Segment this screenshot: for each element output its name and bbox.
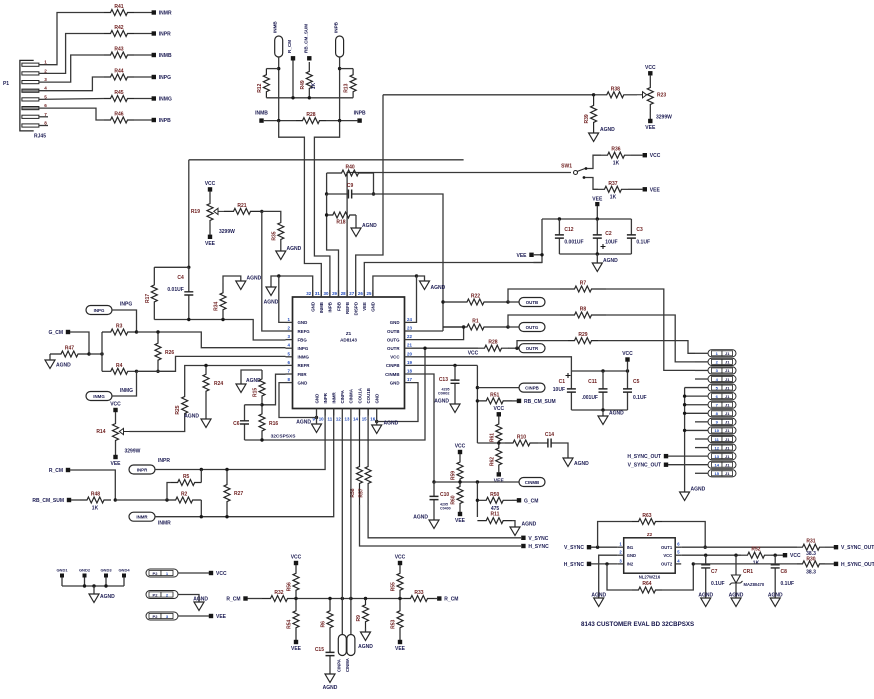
svg-text:J1: J1 <box>725 385 730 390</box>
svg-text:C9: C9 <box>347 183 354 189</box>
wire VCC to R61 <box>498 417 500 423</box>
resistor R57 <box>365 409 371 506</box>
svg-text:R23: R23 <box>657 93 666 99</box>
svg-text:J1: J1 <box>725 454 730 459</box>
svg-text:FBG: FBG <box>298 337 308 342</box>
resistor R58 <box>357 409 363 506</box>
svg-text:R63: R63 <box>642 513 651 519</box>
ground below C8 <box>770 598 780 607</box>
testpoint CINPA <box>338 635 346 656</box>
wire AGND stub top-right <box>417 276 425 281</box>
resistor R25 <box>182 390 188 420</box>
power flag VCC above R61 <box>497 412 501 416</box>
junction R2 left <box>165 498 168 501</box>
net flag V_SYNC z2 <box>587 545 591 549</box>
wire R52 to VCC flag <box>771 554 783 556</box>
svg-text:24: 24 <box>407 317 412 322</box>
wire R31 to V_SYNC_OUT <box>825 546 834 548</box>
svg-text:VCC: VCC <box>645 65 656 71</box>
svg-text:R55: R55 <box>391 582 397 591</box>
svg-text:AGND: AGND <box>246 378 261 384</box>
wire bottom rail to AGND <box>596 254 598 263</box>
junction R56 R54 <box>294 597 297 600</box>
power flag VEE P2 <box>209 614 213 618</box>
svg-text:VCC: VCC <box>390 355 400 360</box>
svg-text:15: 15 <box>362 417 367 422</box>
svg-text:0.001UF: 0.001UF <box>564 240 583 246</box>
resistor R26 <box>155 332 161 371</box>
svg-text:OUTR: OUTR <box>387 346 400 351</box>
IC pin 11 INMR <box>333 409 335 416</box>
svg-text:CINMB: CINMB <box>385 372 399 377</box>
svg-text:AGND: AGND <box>184 414 199 420</box>
junction R63 tap <box>596 546 599 549</box>
svg-text:38.3: 38.3 <box>806 569 816 575</box>
svg-text:30: 30 <box>324 291 329 296</box>
svg-text:R51: R51 <box>490 392 499 398</box>
ground below R11 <box>510 527 520 536</box>
svg-text:R28: R28 <box>306 112 315 118</box>
svg-text:AGND: AGND <box>609 411 624 417</box>
power flag VEE below R60 <box>458 512 462 516</box>
svg-text:R40: R40 <box>345 165 354 171</box>
svg-text:VCC: VCC <box>468 350 479 356</box>
IC pin 8 GND <box>286 382 293 384</box>
net flag H_SYNC_OUT z2 <box>834 562 838 566</box>
IC pin 19 CINPB <box>405 364 412 366</box>
svg-text:REFB: REFB <box>345 302 350 314</box>
resistor R22 <box>443 299 508 305</box>
wire FBR jog <box>262 374 286 405</box>
svg-text:OUT2: OUT2 <box>661 562 673 567</box>
svg-text:Z2: Z2 <box>647 532 653 537</box>
junction bus pin6 <box>683 394 686 397</box>
capacitor C8 <box>774 555 776 577</box>
wire INPG oval to column <box>112 310 137 332</box>
wire R18 to AGND <box>355 215 357 228</box>
svg-text:R21: R21 <box>237 203 246 209</box>
junction R2 INMR <box>200 515 203 518</box>
svg-text:R7: R7 <box>580 281 587 287</box>
wire COU1B to V_SYNC row <box>368 505 521 538</box>
net flag INPG <box>152 75 156 79</box>
wire H_SYNC_OUT to J1 pin13 <box>668 455 708 457</box>
wire P1 pin3 to R43 <box>39 55 104 82</box>
svg-text:C10: C10 <box>440 492 449 498</box>
wire OUTR to R29 row <box>517 341 568 349</box>
junction OUTR feedback <box>423 347 426 350</box>
wire INMG oval to column <box>112 371 137 396</box>
svg-text:R25: R25 <box>175 405 181 414</box>
testpoint CINMA <box>347 635 355 656</box>
svg-text:INPR: INPR <box>158 458 170 464</box>
connector J1 pin 1 <box>708 350 736 357</box>
svg-text:R41: R41 <box>114 4 123 10</box>
svg-text:R2: R2 <box>181 492 188 498</box>
wire R14 bottom to VEE <box>115 441 117 455</box>
resistor R40 <box>327 170 374 176</box>
wire R64 loop <box>607 564 632 590</box>
net label INPR <box>129 465 155 474</box>
svg-text:23: 23 <box>407 326 412 331</box>
capacitor C15 <box>329 640 331 668</box>
connector J1 pin 11 <box>708 435 736 442</box>
svg-text:R36: R36 <box>611 147 620 153</box>
svg-text:VEE: VEE <box>645 125 656 131</box>
svg-text:R34: R34 <box>214 301 220 310</box>
svg-text:V_SYNC: V_SYNC <box>528 536 548 542</box>
wire P2 pin2 to AGND <box>178 595 199 603</box>
IC pin 24 GND <box>405 321 412 323</box>
svg-text:R_CM: R_CM <box>226 597 240 603</box>
svg-text:VEE: VEE <box>362 302 367 311</box>
svg-text:AGND: AGND <box>247 276 262 282</box>
junction INMB column <box>277 119 280 122</box>
wire J1 ground bus <box>685 387 708 389</box>
wire junction to R35 <box>262 211 281 222</box>
svg-text:P2: P2 <box>153 592 159 597</box>
wire R3 row to FBG jog <box>137 332 286 348</box>
wire R1 to OUTG oval <box>508 326 519 328</box>
connector J1 pin 8 <box>708 410 736 417</box>
junction R3 R4 split <box>100 352 103 355</box>
net flag INMR <box>152 10 156 14</box>
svg-text:SW1: SW1 <box>561 164 572 170</box>
power flag VEE left of cap bank <box>529 253 533 257</box>
junction C10 rail <box>432 480 435 483</box>
wire INMB testpoint down <box>278 57 280 121</box>
svg-text:GND: GND <box>390 320 400 325</box>
svg-text:IN2: IN2 <box>627 562 634 567</box>
ground P2 <box>194 602 204 611</box>
wire pin16 to AGND <box>376 416 378 422</box>
svg-text:R54: R54 <box>287 619 293 628</box>
resistor R44 <box>104 74 134 80</box>
wire VCC line from pin20 <box>412 357 572 371</box>
svg-text:17: 17 <box>407 377 412 382</box>
svg-text:C1: C1 <box>559 379 566 385</box>
net flag R_CM bottom-left <box>243 596 247 600</box>
wire R15 arch to AGND <box>241 370 262 384</box>
connector J1 pin 9 <box>708 418 736 425</box>
svg-text:R17: R17 <box>145 294 151 303</box>
svg-text:19: 19 <box>407 360 412 365</box>
svg-text:J1: J1 <box>725 420 730 425</box>
svg-text:R50: R50 <box>490 492 499 498</box>
potentiometer R23 <box>647 80 653 112</box>
IC pin 32 GND <box>312 290 314 297</box>
junction R64 tap <box>605 562 608 565</box>
wire OUTB pin stub <box>412 330 444 332</box>
net label INPG <box>86 306 112 315</box>
potentiometer R14 <box>113 423 119 441</box>
capacitor C6 <box>244 405 246 440</box>
wire VCC row Z2 <box>681 554 741 556</box>
svg-text:P2: P2 <box>153 614 159 619</box>
junction CR1 top <box>734 554 737 557</box>
net flag INMG <box>152 96 156 100</box>
wire R21 node to IC pin2 REFG <box>262 211 286 331</box>
svg-text:AGND: AGND <box>358 644 373 650</box>
wire INMB to R28 <box>264 120 296 122</box>
wire R50 to G_CM <box>512 499 517 501</box>
wire R19 bottom to VEE <box>209 221 211 235</box>
ground GND posts <box>89 594 99 603</box>
svg-text:R9: R9 <box>356 615 362 622</box>
IC pin 13 CINMA <box>350 409 352 416</box>
resistor R15 <box>259 370 265 405</box>
resistor R1 <box>443 324 508 330</box>
svg-text:AGND: AGND <box>296 420 311 426</box>
net flag H_SYNC_OUT <box>664 454 668 458</box>
resistor R33 <box>404 596 434 602</box>
IC pin 26 VEE <box>363 290 365 297</box>
wire cap bank bottom rail <box>559 253 631 255</box>
svg-text:R28: R28 <box>488 340 497 346</box>
svg-text:V_SYNC_OUT: V_SYNC_OUT <box>841 545 874 551</box>
resistor R27 <box>224 470 230 517</box>
wire pin24 GND jog <box>412 276 417 322</box>
net flag H_SYNC mid <box>521 544 525 548</box>
svg-text:VCC: VCC <box>455 444 466 450</box>
wire R5 to INPR row <box>200 470 202 483</box>
power flag VCC right of R36 <box>643 153 647 157</box>
svg-text:C11: C11 <box>588 379 597 385</box>
svg-text:0.1UF: 0.1UF <box>636 240 650 246</box>
wire R43 to INMB flag <box>134 54 152 56</box>
wire C10 to AGND <box>433 514 435 520</box>
resistor R3 <box>102 329 137 335</box>
resistor R8 <box>560 312 606 318</box>
wire R23 bottom to VEE <box>649 112 651 119</box>
junction R29 tap <box>515 347 518 350</box>
svg-text:AGND: AGND <box>522 522 537 528</box>
power flag VCC z2 <box>783 553 787 557</box>
svg-text:INPR: INPR <box>137 468 148 473</box>
IC pin 18 CINMB <box>405 373 412 375</box>
IC pin 5 INMG <box>286 356 293 358</box>
svg-text:REFG: REFG <box>298 329 311 334</box>
svg-text:R48: R48 <box>91 492 100 498</box>
net label INMG <box>86 392 112 401</box>
power flag VCC above R19 <box>208 187 212 191</box>
svg-text:OUTB: OUTB <box>387 329 399 334</box>
svg-text:INPR: INPR <box>159 32 171 38</box>
svg-text:NL27WZ16: NL27WZ16 <box>639 574 661 579</box>
IC pin 31 INMB <box>320 290 322 297</box>
svg-text:R24: R24 <box>214 381 223 387</box>
resistor R11 <box>477 518 512 524</box>
wire P1 pin1 to R41 <box>39 13 104 65</box>
wire R28 to INPB <box>326 120 357 122</box>
power flag VEE below R54 <box>294 640 298 644</box>
junction C12 top <box>558 217 561 220</box>
junction GND rail pin24 <box>415 274 418 277</box>
svg-text:GND: GND <box>314 394 319 404</box>
switch SW1 <box>574 171 578 175</box>
svg-text:VCC: VCC <box>291 555 302 561</box>
svg-text:C13: C13 <box>439 377 448 383</box>
diode CR1 <box>735 555 737 575</box>
connector P2 pin 1 <box>146 569 178 577</box>
wire R40 loop right <box>373 173 375 194</box>
net label OUTR <box>519 344 545 353</box>
wire P2 pin1 to VCC <box>178 572 209 574</box>
junction R22 out <box>506 300 509 303</box>
svg-text:INPB: INPB <box>354 111 366 117</box>
IC pin 22 OUTG <box>405 339 412 341</box>
resistor R60 <box>457 482 463 508</box>
junction CINPB oval row <box>476 386 479 389</box>
svg-text:OUTG: OUTG <box>526 325 539 330</box>
ground IC bottom-left <box>312 424 322 433</box>
net flag H_SYNC z2 <box>587 562 591 566</box>
wire VCC cap bank rail <box>571 370 627 372</box>
junction bus pin7 <box>683 403 686 406</box>
svg-text:26: 26 <box>358 291 363 296</box>
svg-text:AGND: AGND <box>574 461 589 467</box>
capacitor C11 <box>602 371 604 410</box>
svg-text:C12: C12 <box>564 227 573 233</box>
svg-text:VCC: VCC <box>395 555 406 561</box>
svg-text:AGND: AGND <box>323 685 338 691</box>
svg-text:R61: R61 <box>489 433 495 442</box>
resistor R17 <box>151 267 157 319</box>
svg-text:22: 22 <box>407 334 412 339</box>
wire R60 to VEE <box>459 508 461 512</box>
svg-text:R_CM: R_CM <box>287 40 292 53</box>
junction C4 bottom <box>187 318 190 321</box>
IC pin 17 GND <box>405 382 412 384</box>
resistor R32 <box>262 596 296 602</box>
wire CINPA column <box>341 416 343 635</box>
svg-text:VEE: VEE <box>216 614 227 620</box>
junction R6 rail <box>328 597 331 600</box>
wire R50 column <box>476 482 478 517</box>
svg-text:C8: C8 <box>781 569 788 575</box>
connector J1 pin 15 <box>708 470 736 477</box>
svg-text:AGND: AGND <box>698 593 713 599</box>
svg-text:R62: R62 <box>489 457 495 466</box>
svg-text:J1: J1 <box>725 403 730 408</box>
wire CINPB pin row <box>412 364 478 366</box>
IC pin 29 FBB <box>338 290 340 297</box>
svg-text:IN1: IN1 <box>627 545 634 550</box>
wire GND rail left <box>271 276 313 297</box>
wire FBG rail <box>154 320 285 341</box>
wire CINMA column <box>350 416 352 635</box>
junction R50 column <box>476 480 479 483</box>
svg-text:R56: R56 <box>287 582 293 591</box>
ground below C13 <box>450 404 460 413</box>
IC pin 25 GND <box>372 290 374 297</box>
svg-text:J1: J1 <box>725 394 730 399</box>
wire OUT2 row <box>693 563 797 565</box>
svg-text:CINMB: CINMB <box>525 480 539 485</box>
IC pin 12 CINPA <box>341 409 343 416</box>
svg-text:R31: R31 <box>806 539 815 545</box>
resistor R64 <box>632 587 662 593</box>
svg-text:0.01UF: 0.01UF <box>167 287 183 293</box>
wire R46 to INPB flag <box>134 119 152 121</box>
net flag G_CM <box>66 330 70 334</box>
capacitor C13 <box>454 365 456 398</box>
wire P1 pin7 stub <box>39 116 48 118</box>
connector J1 pin 14 <box>708 461 736 468</box>
junction R5 top <box>200 468 203 471</box>
ground IC top-left <box>266 287 276 296</box>
junction R9 rail <box>364 597 367 600</box>
svg-text:C14: C14 <box>545 432 554 438</box>
svg-text:AGND: AGND <box>384 421 399 427</box>
capacitor C9 <box>327 193 374 195</box>
svg-text:C0M02: C0M02 <box>438 392 450 396</box>
svg-text:G_CM: G_CM <box>524 498 538 504</box>
svg-text:AGND: AGND <box>600 127 615 133</box>
svg-text:R_CM: R_CM <box>444 597 458 603</box>
wire R63 to OUT1 <box>662 522 705 548</box>
svg-text:CINPB: CINPB <box>525 386 539 391</box>
ground below CR1 <box>731 598 741 607</box>
wire OUTG to R1 <box>443 326 464 328</box>
svg-text:COU1B: COU1B <box>366 388 371 403</box>
resistor R29 <box>568 338 598 344</box>
svg-text:C2: C2 <box>605 231 612 237</box>
resistor R59 <box>457 459 463 482</box>
net label CINPB <box>519 383 545 392</box>
svg-text:GND: GND <box>371 302 376 312</box>
Z2 pin 3 IN2 <box>618 563 624 565</box>
wire R4 row to INMG pin jog <box>137 356 286 371</box>
svg-text:H_SYNC: H_SYNC <box>528 544 549 550</box>
power flag VCC above R23 <box>648 71 652 75</box>
svg-text:VEE: VEE <box>516 253 527 259</box>
svg-text:AGND: AGND <box>264 300 279 306</box>
wire J1 pin3 stub <box>695 369 708 371</box>
IC pin 20 VCC <box>405 356 412 358</box>
svg-text:CINPB: CINPB <box>386 363 400 368</box>
connector J1 pin 12 <box>708 444 736 451</box>
net flag G_CM right <box>517 498 521 502</box>
svg-text:R64: R64 <box>642 581 651 587</box>
svg-text:R29: R29 <box>578 332 587 338</box>
resistor R30 <box>797 561 825 567</box>
svg-text:27: 27 <box>349 291 354 296</box>
svg-text:C7: C7 <box>711 569 718 575</box>
wire pin8 GND jog <box>279 383 317 418</box>
svg-text:R13: R13 <box>344 83 350 92</box>
wire R5 left leg <box>167 483 171 501</box>
wire OUTB to R7 row <box>508 289 560 302</box>
svg-text:R19: R19 <box>191 209 200 215</box>
ground IC top-right <box>420 281 430 290</box>
resistor R16 <box>259 405 265 440</box>
svg-text:J1: J1 <box>725 471 730 476</box>
svg-text:GND4: GND4 <box>118 568 130 573</box>
wire R51 to RB_CM_SUM <box>512 400 517 402</box>
resistor R45 <box>104 96 134 102</box>
wire P1 pin2 to R42 <box>39 34 104 74</box>
junction R13 top <box>338 67 341 70</box>
resistor R43 <box>104 52 134 58</box>
wire CINMB pin column <box>412 374 435 482</box>
Z2 pin 4 OUT2 <box>675 563 681 565</box>
capacitor C2 <box>596 219 598 254</box>
svg-text:VCC: VCC <box>622 351 633 357</box>
svg-text:J1: J1 <box>725 445 730 450</box>
svg-text:10UF: 10UF <box>553 387 565 393</box>
wire R64 to OUT2 <box>662 564 693 590</box>
